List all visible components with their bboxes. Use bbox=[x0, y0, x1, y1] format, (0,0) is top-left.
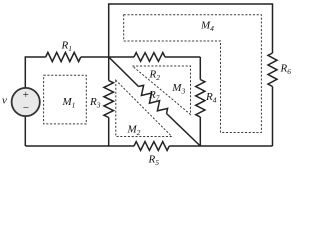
wire R4 bottom lead bbox=[199, 117, 201, 146]
svg-text:M4: M4 bbox=[200, 20, 214, 33]
wire diagonal lower (R7 to R4 bottom node) bbox=[167, 114, 201, 147]
svg-text:R7: R7 bbox=[148, 89, 160, 102]
resistor R4 bbox=[196, 80, 205, 118]
wire bottom right segment bbox=[169, 145, 272, 147]
wire R4 top lead bbox=[199, 57, 201, 80]
mesh box M2 bbox=[116, 80, 172, 136]
voltage source v bbox=[12, 88, 40, 116]
svg-text:R1: R1 bbox=[61, 40, 72, 53]
resistor R3 bbox=[104, 81, 114, 118]
mesh box M4 bbox=[124, 15, 262, 133]
wire source top lead bbox=[25, 57, 45, 88]
resistor R2 bbox=[134, 53, 165, 62]
wire R2 to R4 top bbox=[165, 56, 200, 58]
mesh box M3 bbox=[132, 66, 190, 115]
svg-text:R5: R5 bbox=[148, 154, 160, 167]
wire source bottom lead bbox=[24, 116, 26, 146]
svg-text:R6: R6 bbox=[280, 63, 292, 76]
svg-text:−: − bbox=[22, 102, 29, 114]
resistor R5 bbox=[134, 142, 169, 151]
resistor R7 bbox=[139, 85, 168, 113]
wire diagonal upper (node A to R7) bbox=[109, 57, 139, 87]
svg-text:R4: R4 bbox=[205, 91, 217, 104]
svg-text:R3: R3 bbox=[89, 96, 101, 109]
wire R1 to node A bbox=[81, 56, 134, 58]
svg-text:M2: M2 bbox=[127, 124, 141, 137]
wire R3 to bottom bbox=[108, 118, 110, 147]
wire node A down to R3 bbox=[108, 57, 110, 81]
svg-text:+: + bbox=[22, 89, 29, 101]
wire bottom left segment bbox=[25, 145, 134, 147]
wire right edge below R6 bbox=[272, 87, 274, 147]
resistor R1 bbox=[46, 52, 81, 61]
resistor R6 bbox=[268, 53, 277, 87]
outer loop top/right wire (R6 branch frame) bbox=[109, 4, 273, 57]
svg-text:v: v bbox=[2, 95, 7, 107]
svg-text:M3: M3 bbox=[171, 82, 185, 95]
mesh box M1 bbox=[44, 75, 87, 124]
svg-text:R2: R2 bbox=[149, 69, 161, 82]
svg-text:M1: M1 bbox=[62, 96, 76, 109]
